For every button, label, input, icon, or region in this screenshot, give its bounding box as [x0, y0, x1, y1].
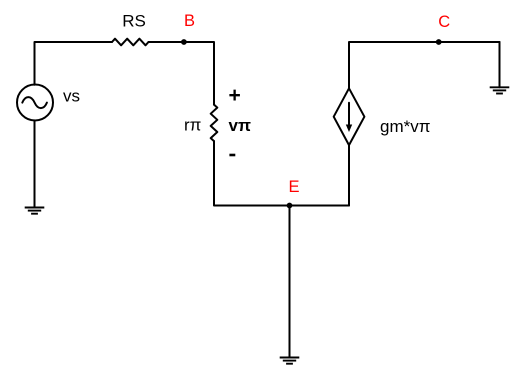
- wire vs bottom to left ground: [34, 120, 36, 207]
- wire current source top to node C rail and right corner: [349, 42, 500, 88]
- svg-text:B: B: [184, 12, 195, 30]
- svg-text:E: E: [288, 178, 299, 196]
- node C junction dot: [436, 39, 442, 45]
- wire vs top to RS left: [35, 42, 113, 85]
- wire node E down to ground: [289, 206, 291, 358]
- svg-text:rπ: rπ: [184, 116, 201, 135]
- node B junction dot: [181, 39, 187, 45]
- wire RS right to corner down to r-pi top: [149, 42, 215, 105]
- voltage source vs circle: [17, 85, 53, 121]
- svg-text:vs: vs: [63, 87, 80, 106]
- svg-text:+: +: [228, 84, 240, 107]
- svg-text:C: C: [438, 13, 450, 31]
- current source G1 diamond: [334, 88, 365, 145]
- resistor r-pi: [211, 105, 218, 142]
- ground right: [490, 86, 510, 88]
- voltage source vs sine wave: [22, 97, 47, 108]
- resistor RS: [112, 39, 149, 46]
- wire node C rail corner down to right ground: [499, 42, 501, 87]
- svg-text:vπ: vπ: [229, 116, 251, 135]
- current source G1 arrow: [348, 103, 350, 126]
- node E junction dot: [287, 203, 293, 209]
- label minus polarity: [229, 154, 235, 157]
- wire r-pi bottom to bottom rail: [214, 141, 349, 205]
- wire bottom rail up to current source bottom: [348, 145, 350, 205]
- ground center: [280, 357, 300, 359]
- ground left: [25, 207, 45, 209]
- svg-text:RS: RS: [122, 12, 146, 31]
- svg-text:gm*vπ: gm*vπ: [380, 117, 430, 136]
